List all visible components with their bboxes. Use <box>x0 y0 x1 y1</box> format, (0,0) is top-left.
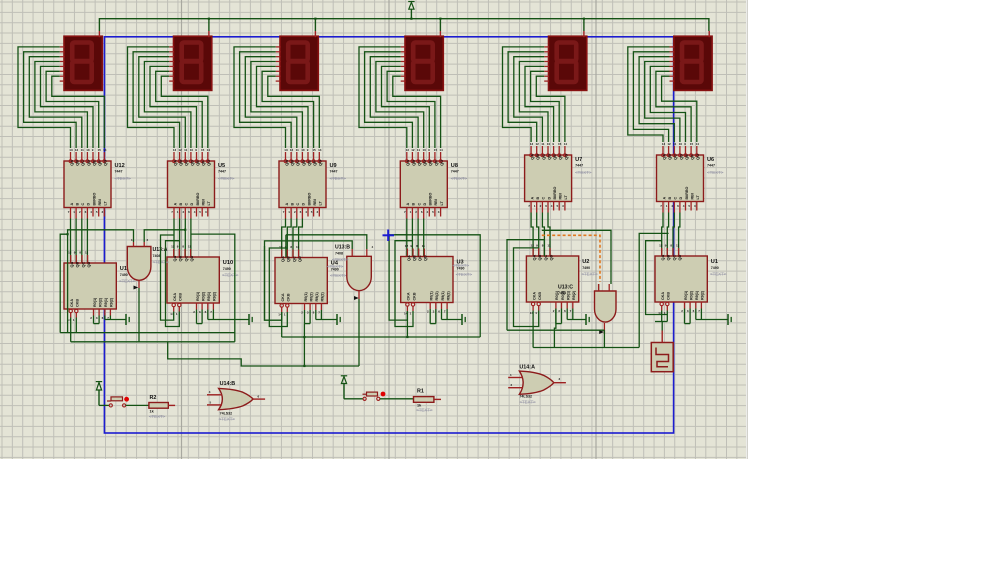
schematic grid background <box>0 0 746 459</box>
wire rail drop <box>583 19 585 31</box>
decoder U5 7447 <box>168 161 215 208</box>
svg-text:R0(1): R0(1) <box>684 290 688 300</box>
svg-text:RBI: RBI <box>313 199 317 205</box>
svg-text:BI/RBO: BI/RBO <box>307 192 311 205</box>
svg-text:<TEXT>: <TEXT> <box>451 176 468 181</box>
svg-text:U13:B: U13:B <box>335 245 350 251</box>
ground G2 <box>248 314 250 325</box>
svg-text:<TEXT>: <TEXT> <box>222 273 239 278</box>
wire bundle display2 to decoder <box>128 47 175 148</box>
svg-text:LT: LT <box>440 201 444 206</box>
decoder U9 7447 <box>279 161 326 208</box>
svg-text:QC: QC <box>673 154 678 160</box>
svg-text:<TEXT>: <TEXT> <box>149 414 166 419</box>
wire counter1 R0 pins <box>93 316 95 324</box>
svg-text:BI/RBO: BI/RBO <box>685 186 689 199</box>
svg-text:QC: QC <box>417 255 422 261</box>
svg-text:QG: QG <box>206 160 211 166</box>
svg-text:<TEXT>: <TEXT> <box>115 176 132 181</box>
svg-text:RBI: RBI <box>98 199 102 205</box>
svg-text:<TEXT>: <TEXT> <box>330 176 347 181</box>
wire decoder3 to counter3 <box>282 219 286 258</box>
svg-text:C: C <box>296 203 300 206</box>
decoder U12 7447 <box>64 161 111 208</box>
svg-text:A: A <box>285 203 289 206</box>
svg-text:U12: U12 <box>115 163 125 169</box>
svg-text:U6: U6 <box>707 157 714 163</box>
svg-text:QF: QF <box>433 160 438 166</box>
svg-text:QC: QC <box>295 160 300 166</box>
svg-text:12: 12 <box>531 244 535 248</box>
wire bundle display6 to decoder <box>628 47 670 142</box>
svg-text:7408: 7408 <box>335 252 343 256</box>
svg-text:LT: LT <box>319 201 323 206</box>
svg-text:11: 11 <box>188 245 192 249</box>
svg-text:B: B <box>536 197 540 200</box>
svg-text:QD: QD <box>678 154 683 160</box>
svg-text:A: A <box>406 203 410 206</box>
svg-text:<TEXT>: <TEXT> <box>218 176 235 181</box>
svg-text:R0(1): R0(1) <box>430 291 434 301</box>
svg-text:R9(2): R9(2) <box>572 290 576 300</box>
svg-text:12: 12 <box>405 244 409 248</box>
svg-text:14: 14 <box>318 148 322 152</box>
svg-text:QC: QC <box>184 160 189 166</box>
svg-text:7490: 7490 <box>711 266 719 270</box>
svg-text:12: 12 <box>536 142 540 146</box>
7-seg display DS6 <box>674 36 712 90</box>
svg-text:74LS32: 74LS32 <box>220 412 233 416</box>
svg-text:R1: R1 <box>417 389 424 395</box>
wire column riserA <box>389 235 407 320</box>
counter U3 7490 <box>401 257 453 303</box>
wire U3 CKA drop <box>406 311 408 337</box>
svg-text:U8: U8 <box>451 163 458 169</box>
svg-text:14: 14 <box>439 148 443 152</box>
svg-text:QE: QE <box>552 154 557 160</box>
svg-text:C: C <box>185 203 189 206</box>
svg-text:12: 12 <box>290 148 294 152</box>
svg-text:U5: U5 <box>218 163 225 169</box>
wire column riserB <box>269 248 287 327</box>
svg-text:LT: LT <box>564 195 568 200</box>
svg-text:R0(1): R0(1) <box>304 292 308 302</box>
wire QD riser col5 <box>507 240 544 331</box>
svg-text:U2: U2 <box>582 259 589 265</box>
svg-text:QE: QE <box>684 154 689 160</box>
svg-text:R0(2): R0(2) <box>689 290 693 300</box>
counter U1 7490 <box>655 256 707 302</box>
svg-text:QD: QD <box>189 160 194 166</box>
svg-text:QF: QF <box>558 154 563 160</box>
svg-text:QC: QC <box>541 154 546 160</box>
svg-text:QC: QC <box>291 256 296 262</box>
svg-text:QB: QB <box>537 254 542 260</box>
svg-text:QA: QA <box>172 255 177 261</box>
wire decoder4 to counter4 <box>406 219 408 257</box>
svg-text:B: B <box>290 203 294 206</box>
svg-text:B: B <box>75 203 79 206</box>
svg-text:BI/RBO: BI/RBO <box>553 186 557 199</box>
counter U11 7490 <box>64 263 116 309</box>
svg-text:B: B <box>668 197 672 200</box>
svg-text:12: 12 <box>411 148 415 152</box>
switch SW2 <box>109 404 112 407</box>
svg-text:QB: QB <box>75 261 80 267</box>
svg-text:R9(1): R9(1) <box>441 291 445 301</box>
svg-text:QD: QD <box>189 255 194 261</box>
svg-text:CKA: CKA <box>70 299 74 307</box>
svg-text:QF: QF <box>312 160 317 166</box>
svg-text:QB: QB <box>667 154 672 160</box>
wire U13:C output run <box>507 329 604 331</box>
svg-text:10: 10 <box>423 148 427 152</box>
wire clock net <box>655 321 667 323</box>
svg-text:7490: 7490 <box>120 273 128 277</box>
svg-text:QA: QA <box>69 261 74 267</box>
svg-text:7447: 7447 <box>218 170 226 174</box>
svg-text:15: 15 <box>434 148 438 152</box>
svg-text:A: A <box>173 203 177 206</box>
svg-text:QF: QF <box>201 160 206 166</box>
svg-text:12: 12 <box>171 245 175 249</box>
wire VCC rail <box>99 19 709 31</box>
wire bundle display3 to decoder <box>234 47 286 148</box>
wire QD riser col6 <box>639 233 668 347</box>
svg-text:QD: QD <box>86 160 91 166</box>
wire U2 R0 jog <box>554 309 556 348</box>
wire decoder2 to counter2 <box>173 219 175 258</box>
svg-text:QA: QA <box>172 160 177 166</box>
display DS1 segment pins <box>60 46 65 48</box>
svg-text:7490: 7490 <box>223 267 231 271</box>
wire decoder6 to counter6 <box>662 213 663 257</box>
power VCC arrow top <box>408 1 414 3</box>
svg-text:B: B <box>412 203 416 206</box>
7-seg display DS4 <box>405 36 443 90</box>
display DS5 segment pins <box>544 46 549 48</box>
svg-text:12: 12 <box>659 244 663 248</box>
svg-text:11: 11 <box>673 142 677 146</box>
svg-text:QA: QA <box>406 255 411 261</box>
switch SW1 <box>363 397 366 400</box>
svg-text:D: D <box>302 203 306 206</box>
svg-text:<TEXT>: <TEXT> <box>581 272 598 277</box>
wire col6 riserB <box>646 241 668 315</box>
or-gate U14:A <box>519 371 554 394</box>
svg-text:R9(2): R9(2) <box>213 291 217 301</box>
svg-text:<TEXT>: <TEXT> <box>219 417 236 422</box>
wire column riserA <box>265 246 282 320</box>
svg-text:R9(2): R9(2) <box>701 290 705 300</box>
wire U4 CKA drop <box>281 312 283 337</box>
7-seg display DS3 <box>280 36 318 90</box>
sheet border <box>104 37 673 433</box>
7-seg display DS5 <box>549 36 587 90</box>
svg-text:11: 11 <box>547 244 551 248</box>
wire bus drop <box>303 324 305 366</box>
wire counter4 R0 pins <box>429 309 431 324</box>
svg-text:BI/RBO: BI/RBO <box>429 192 433 205</box>
wire bundle display4 to decoder <box>359 47 407 148</box>
svg-text:QD: QD <box>548 254 553 260</box>
wire U13:C inputs <box>542 230 611 284</box>
svg-text:A: A <box>662 197 666 200</box>
wire U11 CKB to bus <box>75 318 77 333</box>
display DS2 anode pin <box>208 31 210 37</box>
svg-text:QC: QC <box>80 160 85 166</box>
svg-text:10: 10 <box>679 142 683 146</box>
svg-text:CKB: CKB <box>538 292 542 300</box>
svg-text:11: 11 <box>184 148 188 152</box>
wire counter5 R0 pins <box>555 309 557 324</box>
svg-text:<TEXT>: <TEXT> <box>327 264 344 269</box>
svg-text:QC: QC <box>671 254 676 260</box>
svg-text:11: 11 <box>85 251 89 255</box>
svg-text:CKB: CKB <box>412 292 416 300</box>
wire counter3 R0 pins <box>304 310 306 324</box>
wire column riserB <box>395 241 413 327</box>
display DS4 anode pin <box>439 31 441 37</box>
wire rail drop <box>314 19 316 31</box>
svg-text:D: D <box>423 203 427 206</box>
wire clock run <box>533 347 639 349</box>
svg-text:R0(1): R0(1) <box>93 297 97 307</box>
svg-text:R0(2): R0(2) <box>98 297 102 307</box>
power VCC arrow left <box>96 381 102 383</box>
svg-text:15: 15 <box>312 148 316 152</box>
cursor cross <box>383 234 395 236</box>
svg-text:<TEXT>: <TEXT> <box>575 170 592 175</box>
op-amp U13:A AND gate <box>127 247 151 281</box>
svg-text:CKA: CKA <box>661 292 665 300</box>
power VCC arrow right <box>341 375 347 377</box>
svg-text:13: 13 <box>662 142 666 146</box>
7-seg display DS2 <box>174 36 212 90</box>
svg-text:12: 12 <box>75 148 79 152</box>
svg-text:10: 10 <box>190 148 194 152</box>
svg-text:11: 11 <box>81 148 85 152</box>
wire bus C <box>282 336 481 338</box>
svg-text:LT: LT <box>104 201 108 206</box>
svg-text:QC: QC <box>543 254 548 260</box>
or-gate U14:B <box>219 388 254 409</box>
resistor R2 <box>149 403 168 409</box>
wire switch to R2 <box>126 404 149 406</box>
svg-text:7447: 7447 <box>575 164 583 168</box>
svg-text:14: 14 <box>696 142 700 146</box>
svg-text:14: 14 <box>564 142 568 146</box>
wire U13:B output <box>358 299 360 366</box>
display DS3 segment pins <box>276 46 281 48</box>
ground G6 <box>727 314 729 325</box>
svg-text:12: 12 <box>667 142 671 146</box>
svg-text:QB: QB <box>75 160 80 166</box>
svg-text:R0(2): R0(2) <box>201 291 205 301</box>
svg-text:CKB: CKB <box>179 293 183 301</box>
svg-text:15: 15 <box>201 148 205 152</box>
svg-text:7447: 7447 <box>451 170 459 174</box>
wire rail drop <box>208 19 210 31</box>
svg-text:CKA: CKA <box>407 292 411 300</box>
ground G4 <box>461 314 463 325</box>
display DS1 anode pin <box>98 31 100 37</box>
svg-text:<TEXT>: <TEXT> <box>330 273 347 278</box>
display DS6 anode pin <box>708 31 710 37</box>
svg-text:QA: QA <box>280 256 285 262</box>
svg-text:<TEXT>: <TEXT> <box>456 272 473 277</box>
svg-text:QE: QE <box>306 160 311 166</box>
svg-text:R0(2): R0(2) <box>435 291 439 301</box>
svg-text:QD: QD <box>297 256 302 262</box>
svg-text:<TEXT>: <TEXT> <box>707 170 724 175</box>
svg-text:10: 10 <box>301 148 305 152</box>
decoder U7 7447 <box>525 155 572 202</box>
svg-text:7408: 7408 <box>558 291 566 295</box>
svg-text:74LS32: 74LS32 <box>519 394 532 398</box>
display DS5 anode pin <box>583 31 585 37</box>
svg-text:R0(2): R0(2) <box>309 292 313 302</box>
svg-text:14: 14 <box>103 148 107 152</box>
decoder U6 7447 <box>657 155 704 202</box>
svg-text:<TEXT>: <TEXT> <box>710 272 727 277</box>
svg-text:R9(2): R9(2) <box>446 291 450 301</box>
svg-text:QA: QA <box>530 154 535 160</box>
wire switch to R1 <box>380 398 414 400</box>
svg-text:C: C <box>81 203 85 206</box>
svg-text:QB: QB <box>290 160 295 166</box>
svg-text:QE: QE <box>91 160 96 166</box>
wire QD riser col2 <box>191 234 235 342</box>
svg-text:12: 12 <box>178 148 182 152</box>
wire to switch SW2 <box>99 404 109 406</box>
svg-text:QA: QA <box>532 254 537 260</box>
svg-text:U9: U9 <box>330 163 337 169</box>
svg-text:7447: 7447 <box>707 164 715 168</box>
svg-text:QA: QA <box>405 160 410 166</box>
svg-text:7408: 7408 <box>153 254 161 258</box>
svg-text:D: D <box>679 197 683 200</box>
svg-text:11: 11 <box>422 244 426 248</box>
7-seg display DS1 <box>64 36 102 90</box>
svg-text:U13:C: U13:C <box>558 285 573 291</box>
counter U10 7490 <box>167 257 219 303</box>
svg-text:D: D <box>190 203 194 206</box>
svg-text:11: 11 <box>676 244 680 248</box>
svg-text:U7: U7 <box>575 157 582 163</box>
wire column riserA <box>161 235 174 320</box>
svg-text:CKA: CKA <box>532 292 536 300</box>
svg-text:CKB: CKB <box>287 293 291 301</box>
svg-text:QB: QB <box>178 160 183 166</box>
display DS2 segment pins <box>169 46 174 48</box>
svg-text:A: A <box>530 197 534 200</box>
svg-text:BI/RBO: BI/RBO <box>92 192 96 205</box>
svg-text:QG: QG <box>103 160 108 166</box>
svg-text:C: C <box>674 197 678 200</box>
svg-text:RBI: RBI <box>434 199 438 205</box>
svg-text:10: 10 <box>547 142 551 146</box>
svg-text:QG: QG <box>318 160 323 166</box>
wire decoder1 to counter1 <box>70 219 72 264</box>
svg-text:QE: QE <box>428 160 433 166</box>
svg-text:R0(1): R0(1) <box>196 291 200 301</box>
wire U13:A inputs <box>68 230 134 333</box>
svg-text:QG: QG <box>563 154 568 160</box>
svg-text:C: C <box>417 203 421 206</box>
svg-text:LT: LT <box>207 201 211 206</box>
svg-text:CKA: CKA <box>281 293 285 301</box>
svg-text:U14:B: U14:B <box>220 381 236 387</box>
svg-text:13: 13 <box>69 148 73 152</box>
wire highlighted orange <box>542 235 600 281</box>
wire U13:B inputs <box>286 235 367 249</box>
svg-text:R9(1): R9(1) <box>315 292 319 302</box>
svg-text:QG: QG <box>695 154 700 160</box>
svg-text:QD: QD <box>86 261 91 267</box>
svg-text:QD: QD <box>546 154 551 160</box>
svg-text:QC: QC <box>183 255 188 261</box>
svg-text:QB: QB <box>666 254 671 260</box>
svg-text:QB: QB <box>411 255 416 261</box>
svg-text:QA: QA <box>284 160 289 166</box>
wire column riserB <box>166 241 180 327</box>
svg-text:U1: U1 <box>711 259 718 265</box>
svg-text:QC: QC <box>80 261 85 267</box>
svg-text:15: 15 <box>690 142 694 146</box>
display DS4 segment pins <box>401 46 406 48</box>
svg-text:13: 13 <box>173 148 177 152</box>
svg-text:QB: QB <box>178 255 183 261</box>
ground G3 <box>336 314 338 325</box>
svg-text:13: 13 <box>284 148 288 152</box>
wire counter6 R9 to ground <box>695 309 697 320</box>
svg-text:<TEXT>: <TEXT> <box>332 257 349 262</box>
svg-text:10: 10 <box>86 148 90 152</box>
svg-text:RBI: RBI <box>559 193 563 199</box>
wire counter2 R9 to ground <box>207 310 209 320</box>
svg-text:11: 11 <box>296 148 300 152</box>
wire reset run <box>168 342 359 366</box>
svg-text:LT: LT <box>696 195 700 200</box>
svg-text:R9(1): R9(1) <box>207 291 211 301</box>
op-amp U13:B AND gate <box>347 256 372 290</box>
wire QD riser col4 <box>395 235 480 337</box>
svg-text:7447: 7447 <box>330 170 338 174</box>
clock source CLK <box>651 343 673 372</box>
svg-text:R2: R2 <box>150 395 157 401</box>
svg-text:QB: QB <box>411 160 416 166</box>
svg-text:QD: QD <box>423 255 428 261</box>
wire col5 riserB <box>514 248 539 327</box>
wire U11 CKA to bus <box>70 318 72 342</box>
wire rail drop <box>439 19 441 31</box>
svg-text:QF: QF <box>97 160 102 166</box>
svg-text:D: D <box>547 197 551 200</box>
svg-text:11: 11 <box>296 245 300 249</box>
svg-text:D: D <box>87 203 91 206</box>
svg-text:R9(1): R9(1) <box>695 290 699 300</box>
svg-text:CKB: CKB <box>76 299 80 307</box>
wire counter6 R0 pins <box>684 309 686 324</box>
resistor R1 <box>414 397 434 403</box>
svg-text:14: 14 <box>207 148 211 152</box>
svg-text:7447: 7447 <box>115 170 123 174</box>
svg-text:U10: U10 <box>223 260 233 266</box>
svg-text:RBI: RBI <box>202 199 206 205</box>
svg-text:7490: 7490 <box>582 266 590 270</box>
svg-text:B: B <box>179 203 183 206</box>
